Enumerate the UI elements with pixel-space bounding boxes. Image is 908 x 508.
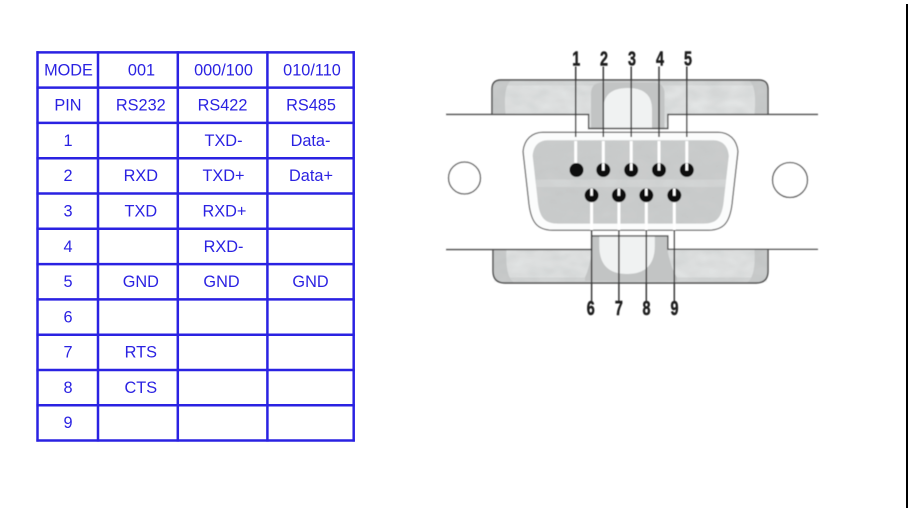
svg-text:GND: GND xyxy=(123,273,159,291)
top hood left corner wedge xyxy=(492,81,511,115)
grey insulator inside shell xyxy=(533,140,729,223)
svg-text:6: 6 xyxy=(587,296,595,319)
svg-text:3: 3 xyxy=(628,47,636,70)
svg-text:MODE: MODE xyxy=(44,61,93,79)
svg-text:9: 9 xyxy=(63,414,72,432)
pin 8 xyxy=(639,188,653,202)
insulator mottle texture xyxy=(531,140,730,224)
pin assignment table grid xyxy=(36,51,354,441)
neck top and right step, faceplate bottom edge right xyxy=(592,236,818,249)
svg-text:RXD: RXD xyxy=(124,167,158,185)
svg-text:8: 8 xyxy=(63,379,72,397)
pin 1 xyxy=(570,163,584,177)
svg-text:4: 4 xyxy=(63,238,72,256)
svg-text:RXD+: RXD+ xyxy=(203,203,247,221)
svg-text:9: 9 xyxy=(671,296,679,319)
svg-text:010/110: 010/110 xyxy=(283,61,341,79)
svg-text:TXD: TXD xyxy=(125,203,158,221)
svg-text:2: 2 xyxy=(600,47,608,70)
svg-text:5: 5 xyxy=(63,273,72,291)
svg-text:6: 6 xyxy=(63,308,72,326)
D-shell outline xyxy=(523,132,738,230)
svg-text:7: 7 xyxy=(63,344,72,362)
bottom band shading strip above bottom edge xyxy=(505,278,758,283)
svg-text:2: 2 xyxy=(63,167,72,185)
svg-text:1: 1 xyxy=(572,47,580,70)
bottom centre blob grey xyxy=(585,236,677,281)
top centre arch grey xyxy=(591,83,665,131)
pin 6 xyxy=(585,188,599,202)
pin hole slots xyxy=(592,163,687,196)
bottom blob inner white U xyxy=(599,236,655,274)
svg-text:RXD-: RXD- xyxy=(204,238,244,256)
pin 4 xyxy=(652,163,666,177)
DB9 connector: top hood fill xyxy=(492,80,768,130)
svg-text:Data+: Data+ xyxy=(289,167,333,185)
svg-text:RS422: RS422 xyxy=(198,97,248,115)
top hood outline xyxy=(492,80,768,116)
svg-text:4: 4 xyxy=(656,47,664,70)
svg-text:7: 7 xyxy=(615,296,623,319)
svg-text:CTS: CTS xyxy=(125,379,158,397)
leader lines pins 1-5 xyxy=(576,67,687,138)
svg-text:8: 8 xyxy=(643,296,651,319)
svg-text:001: 001 xyxy=(128,61,155,79)
top hood mottle texture xyxy=(493,81,767,129)
svg-text:RS485: RS485 xyxy=(286,97,336,115)
svg-text:5: 5 xyxy=(684,47,692,70)
svg-text:TXD+: TXD+ xyxy=(202,167,244,185)
faceplate white band right of notch xyxy=(668,115,818,249)
pin 9 xyxy=(667,188,681,202)
insulator light streak between pin rows xyxy=(536,180,729,188)
bottom band right corner wedge xyxy=(747,250,768,283)
svg-text:GND: GND xyxy=(292,273,328,291)
top hood shading strip under top edge xyxy=(497,81,763,86)
bottom band outline xyxy=(493,249,768,283)
faceplate bottom edge line left + neck left xyxy=(446,230,592,249)
svg-text:PIN: PIN xyxy=(54,97,81,115)
pin 2 xyxy=(596,163,610,177)
bottom band left corner wedge xyxy=(493,250,514,283)
pin 5 xyxy=(680,163,694,177)
left mounting hole xyxy=(449,162,481,194)
svg-text:RTS: RTS xyxy=(125,344,157,362)
faceplate top edge line with notch xyxy=(446,115,818,129)
pin numbers 1-5 xyxy=(572,47,692,320)
bottom band mottle texture xyxy=(494,250,767,282)
svg-text:000/100: 000/100 xyxy=(194,61,253,79)
svg-text:1: 1 xyxy=(63,132,72,150)
svg-text:GND: GND xyxy=(203,273,239,291)
top hood right corner wedge xyxy=(749,81,768,115)
top centre arch inner white xyxy=(603,88,652,130)
pin 7 xyxy=(612,188,626,202)
faceplate white band below notch xyxy=(589,129,668,249)
pin assignment table text xyxy=(44,61,341,432)
pin 3 xyxy=(624,163,638,177)
right mounting hole xyxy=(773,163,808,198)
svg-text:TXD-: TXD- xyxy=(205,132,243,150)
white leader stripes through insulator xyxy=(576,141,687,230)
svg-text:RS232: RS232 xyxy=(116,97,166,115)
faceplate white band left of notch xyxy=(444,115,589,249)
leader lines pins 6-9 xyxy=(592,230,675,301)
svg-text:3: 3 xyxy=(63,203,72,221)
svg-text:Data-: Data- xyxy=(291,132,331,150)
page right edge rule xyxy=(906,4,908,508)
bottom band fill xyxy=(493,249,768,283)
